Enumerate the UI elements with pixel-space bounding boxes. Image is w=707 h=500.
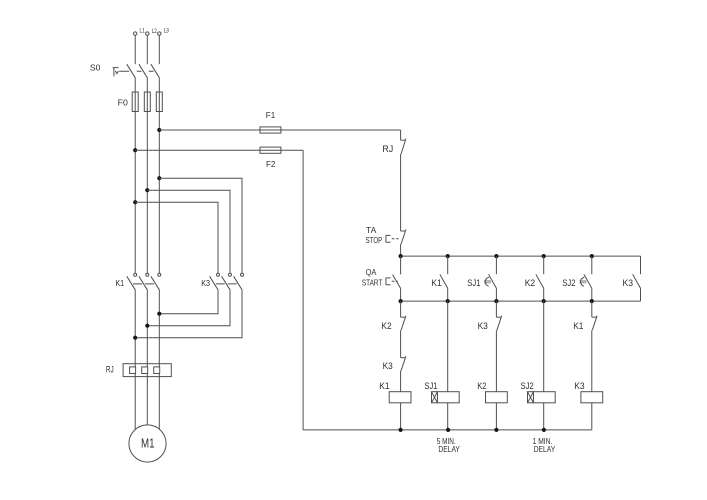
svg-text:SJ2: SJ2 (562, 278, 575, 288)
svg-text:K3: K3 (478, 321, 488, 331)
wire L1 to K3 pole1 (135, 202, 218, 273)
svg-text:K1: K1 (379, 381, 389, 391)
wire branch5 to K1 NC (591, 301, 593, 317)
node rail2 B4 (542, 299, 546, 303)
contact SJ2 timed NO (562, 256, 592, 301)
wire F2 line (135, 149, 303, 151)
wire L1 to S0 (134, 35, 136, 64)
svg-text:STOP: STOP (366, 235, 383, 245)
svg-text:K3: K3 (201, 279, 210, 288)
wire S0 to F0 pole3 (158, 78, 160, 92)
node rail1 B3 (494, 254, 498, 258)
wire control rail mid (401, 300, 641, 302)
wire control rail top (401, 255, 641, 257)
wire K3 pole2 to L2 (147, 290, 230, 325)
svg-text:F1: F1 (266, 110, 276, 120)
wire K1 pole3 down (158, 290, 160, 363)
wire K1 pole2 down (146, 290, 148, 363)
svg-text:K1: K1 (431, 278, 442, 288)
wire phase L1 F0 to K1 (134, 112, 136, 274)
contactor K3 main contacts (201, 273, 243, 290)
label 5 min delay (437, 437, 461, 454)
wire branch1 to K2 NC (400, 301, 402, 317)
wire S0 to F0 pole2 (146, 78, 148, 92)
svg-text:RJ: RJ (106, 364, 114, 374)
node rail1 B4 (542, 254, 546, 258)
wire F1 line (159, 129, 400, 131)
svg-text:K1: K1 (115, 279, 124, 288)
svg-text:TA: TA (366, 225, 377, 235)
wire RJ to STOP (400, 154, 402, 231)
contact K3 NC interlock branch3 (478, 316, 502, 331)
svg-text:SJ1: SJ1 (425, 381, 438, 391)
label 1 min delay (533, 437, 556, 454)
wire K3 pole3 to L1 (135, 290, 242, 337)
wire L3 to K3 pole3 (159, 178, 242, 273)
node junction L3 bottom (157, 312, 161, 316)
svg-text:DELAY: DELAY (534, 445, 556, 454)
wire K1 pole1 down (134, 290, 136, 363)
wire RJ to motor phase3 (158, 377, 160, 430)
overload relay RJ (106, 364, 171, 377)
svg-text:S0: S0 (90, 63, 101, 73)
node K3 feeder from L3 (157, 176, 161, 180)
svg-text:K2: K2 (525, 278, 536, 288)
fuse F2 (260, 147, 281, 169)
svg-text:M1: M1 (141, 436, 155, 451)
node rail2 B5 (590, 299, 594, 303)
contactor K1 main contacts (115, 273, 160, 290)
motor M1 (129, 425, 166, 462)
svg-text:START: START (362, 277, 383, 287)
contact K1 NO aux (431, 256, 447, 301)
wire K3 NC to coil K2 (495, 330, 497, 392)
node rail1 B1 (399, 254, 403, 258)
node rail2 B3 (494, 299, 498, 303)
svg-text:F0: F0 (118, 97, 128, 107)
wire control rail bottom (303, 429, 592, 431)
contact RJ NC (control) (382, 130, 406, 154)
svg-text:QA: QA (366, 267, 377, 277)
terminal L1 (134, 27, 145, 35)
wire phase L2 F0 to K1 (146, 112, 148, 274)
node junction L1 bottom (133, 336, 137, 340)
node K3 feeder from L1 (133, 200, 137, 204)
contact K3 NO aux (623, 256, 641, 301)
wire K3 pole1 to L3 (159, 290, 218, 313)
wire coil K2 to bottom rail (495, 403, 497, 430)
node rail3 B3 (494, 428, 498, 432)
coil K2 (477, 381, 507, 403)
wire K3 NC to coil K1 (400, 371, 402, 392)
wire K1 NC to coil K3 (591, 330, 593, 392)
svg-text:L2: L2 (152, 28, 157, 35)
svg-text:K2: K2 (381, 321, 391, 331)
wire RJ to motor phase2 (146, 377, 148, 425)
contact K2 NO aux (525, 256, 544, 301)
svg-text:K1: K1 (573, 321, 583, 331)
wire phase L3 F0 to K1 (158, 112, 160, 274)
wire coil SJ1 to bottom rail (447, 403, 449, 430)
terminal L3 (158, 27, 170, 35)
fuse F1 (260, 110, 281, 133)
wire L2 to K3 pole2 (147, 190, 230, 273)
node rail1 B5 (590, 254, 594, 258)
svg-text:K3: K3 (574, 381, 584, 391)
svg-text:K3: K3 (383, 361, 393, 371)
svg-text:K3: K3 (623, 278, 634, 288)
node rail3 B1 (399, 428, 403, 432)
node F1 tap (157, 128, 161, 132)
wire branch2 to coil SJ1 (447, 301, 449, 392)
svg-text:RJ: RJ (382, 144, 393, 154)
svg-text:K2: K2 (477, 381, 486, 391)
node rail3 B2 (446, 428, 450, 432)
switch S0 (90, 63, 160, 79)
wire RJ to motor phase1 (134, 377, 136, 430)
wire L3 to S0 (158, 35, 160, 64)
wire branch4 to coil SJ2 (543, 301, 545, 392)
node rail2 B1 (399, 299, 403, 303)
wire coil K1 to bottom rail (400, 403, 402, 430)
wire S0 to F0 pole1 (134, 78, 136, 92)
wire coil K3 to bottom rail (591, 403, 593, 430)
contact K2 NC interlock (381, 316, 406, 331)
svg-text:L1: L1 (140, 27, 145, 34)
coil K3 (574, 381, 603, 403)
svg-text:SJ1: SJ1 (467, 278, 480, 288)
svg-text:DELAY: DELAY (438, 445, 460, 454)
wire branch3 to K3 NC (495, 301, 497, 317)
node rail1 B2 (446, 254, 450, 258)
svg-text:L3: L3 (164, 27, 169, 34)
node rail3 B4 (542, 428, 546, 432)
coil SJ2 timer (521, 381, 556, 403)
pushbutton QA START NO (362, 256, 401, 301)
contact K3 NC interlock (383, 356, 406, 371)
contact SJ1 timed NO (467, 256, 496, 301)
svg-text:F2: F2 (266, 159, 276, 169)
contact K1 NC interlock (573, 316, 597, 331)
wire F2 return to bottom rail (302, 150, 304, 430)
node rail2 B2 (446, 299, 450, 303)
terminal L2 (146, 28, 158, 36)
wire coil SJ2 to bottom rail (543, 403, 545, 430)
node junction L2 bottom (145, 324, 149, 328)
coil K1 (379, 381, 411, 403)
svg-text:SJ2: SJ2 (521, 381, 534, 391)
wire L2 to S0 (146, 35, 148, 64)
fuse F0 (118, 92, 163, 112)
node F2 tap (133, 148, 137, 152)
wire K2 NC to K3 NC (400, 330, 402, 358)
node K3 feeder from L2 (145, 188, 149, 192)
pushbutton TA STOP NC (366, 225, 406, 256)
coil SJ1 timer (425, 381, 460, 403)
